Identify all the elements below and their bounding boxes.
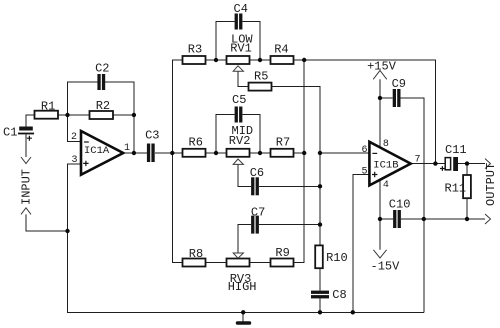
- svg-text:6: 6: [361, 145, 367, 156]
- svg-text:R2: R2: [96, 99, 110, 113]
- svg-text:-15V: -15V: [371, 259, 401, 273]
- svg-text:C6: C6: [250, 166, 264, 180]
- svg-text:IC1B: IC1B: [373, 159, 398, 171]
- svg-text:1: 1: [124, 143, 130, 154]
- svg-text:C3: C3: [145, 129, 159, 143]
- svg-text:C11: C11: [445, 143, 467, 157]
- svg-text:C4: C4: [234, 2, 248, 16]
- svg-text:C10: C10: [389, 198, 411, 212]
- svg-text:R11: R11: [445, 182, 467, 196]
- svg-text:7: 7: [415, 155, 421, 166]
- svg-text:R8: R8: [189, 247, 203, 261]
- svg-text:R6: R6: [189, 136, 203, 150]
- svg-text:C5: C5: [232, 93, 246, 107]
- svg-text:5: 5: [361, 166, 367, 177]
- svg-text:OUTPUT: OUTPUT: [484, 163, 498, 206]
- svg-text:C8: C8: [332, 288, 346, 302]
- svg-text:R4: R4: [274, 43, 288, 57]
- svg-text:C1: C1: [3, 126, 17, 140]
- svg-text:4: 4: [383, 180, 389, 191]
- svg-text:3: 3: [71, 155, 77, 166]
- svg-text:RV2: RV2: [229, 134, 251, 148]
- svg-text:R3: R3: [188, 43, 202, 57]
- svg-text:IC1A: IC1A: [84, 145, 110, 157]
- svg-text:R9: R9: [275, 246, 289, 260]
- svg-text:HIGH: HIGH: [228, 280, 257, 294]
- svg-text:8: 8: [383, 139, 389, 150]
- svg-text:C9: C9: [392, 77, 406, 91]
- svg-text:+15V: +15V: [367, 60, 397, 74]
- svg-text:2: 2: [71, 132, 77, 143]
- svg-text:R1: R1: [41, 99, 55, 113]
- svg-text:R10: R10: [326, 251, 348, 265]
- svg-text:INPUT: INPUT: [20, 169, 34, 205]
- svg-text:R5: R5: [254, 69, 268, 83]
- svg-text:C2: C2: [95, 61, 109, 75]
- svg-text:R7: R7: [276, 136, 290, 150]
- svg-text:RV1: RV1: [230, 42, 252, 56]
- svg-text:C7: C7: [251, 206, 265, 220]
